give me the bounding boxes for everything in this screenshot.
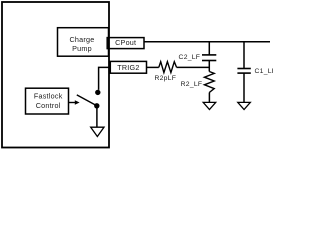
svg-text:C2_LF: C2_LF <box>179 54 201 61</box>
wire fastlock control arrow <box>69 102 76 104</box>
wire switch to ground <box>96 106 98 127</box>
chip outline (PLL IC boundary) <box>2 2 109 148</box>
svg-text:TRIG2: TRIG2 <box>117 63 139 72</box>
resistor R2_LF <box>181 72 215 93</box>
pin CPout <box>107 38 144 49</box>
charge pump block <box>58 28 109 57</box>
resistor R2pLF <box>154 62 176 82</box>
svg-text:Control: Control <box>36 101 61 110</box>
svg-text:CPout: CPout <box>115 38 136 47</box>
node switch bottom terminal <box>94 103 99 108</box>
fastlock control block <box>26 88 69 114</box>
wire rail to C2_LF <box>208 42 210 55</box>
ground under R2_LF <box>203 102 216 109</box>
wire TRIG2 into chip <box>99 67 111 90</box>
switch blade (open, fastlock switch) <box>77 95 97 106</box>
wire R2_LF to ground <box>208 93 210 103</box>
svg-text:R2_LF: R2_LF <box>181 81 203 88</box>
ground under C1_LF <box>238 102 251 109</box>
svg-text:Pump: Pump <box>72 44 92 53</box>
wire rail to C1_LF <box>243 42 245 69</box>
arrowhead fastlock control <box>75 100 80 105</box>
wire R2p_LF to C2/R2 node <box>177 66 210 68</box>
svg-text:R2pLF: R2pLF <box>154 75 176 82</box>
svg-text:Charge: Charge <box>69 35 94 44</box>
ground under switch <box>91 127 104 136</box>
wire TRIG2 to R2p_LF <box>147 66 159 68</box>
svg-text:Fastlock: Fastlock <box>34 92 63 101</box>
svg-text:C1_LF: C1_LF <box>255 68 274 75</box>
capacitor C2_LF <box>179 54 217 61</box>
node switch top terminal <box>95 90 100 95</box>
capacitor C1_LF <box>237 68 276 75</box>
wire C2_LF to R2_LF (node with TRIG2 branch) <box>208 61 210 72</box>
wire top rail from CPout <box>144 41 270 43</box>
wire C1_LF to ground <box>243 73 245 102</box>
pin TRIG2 <box>110 61 146 73</box>
